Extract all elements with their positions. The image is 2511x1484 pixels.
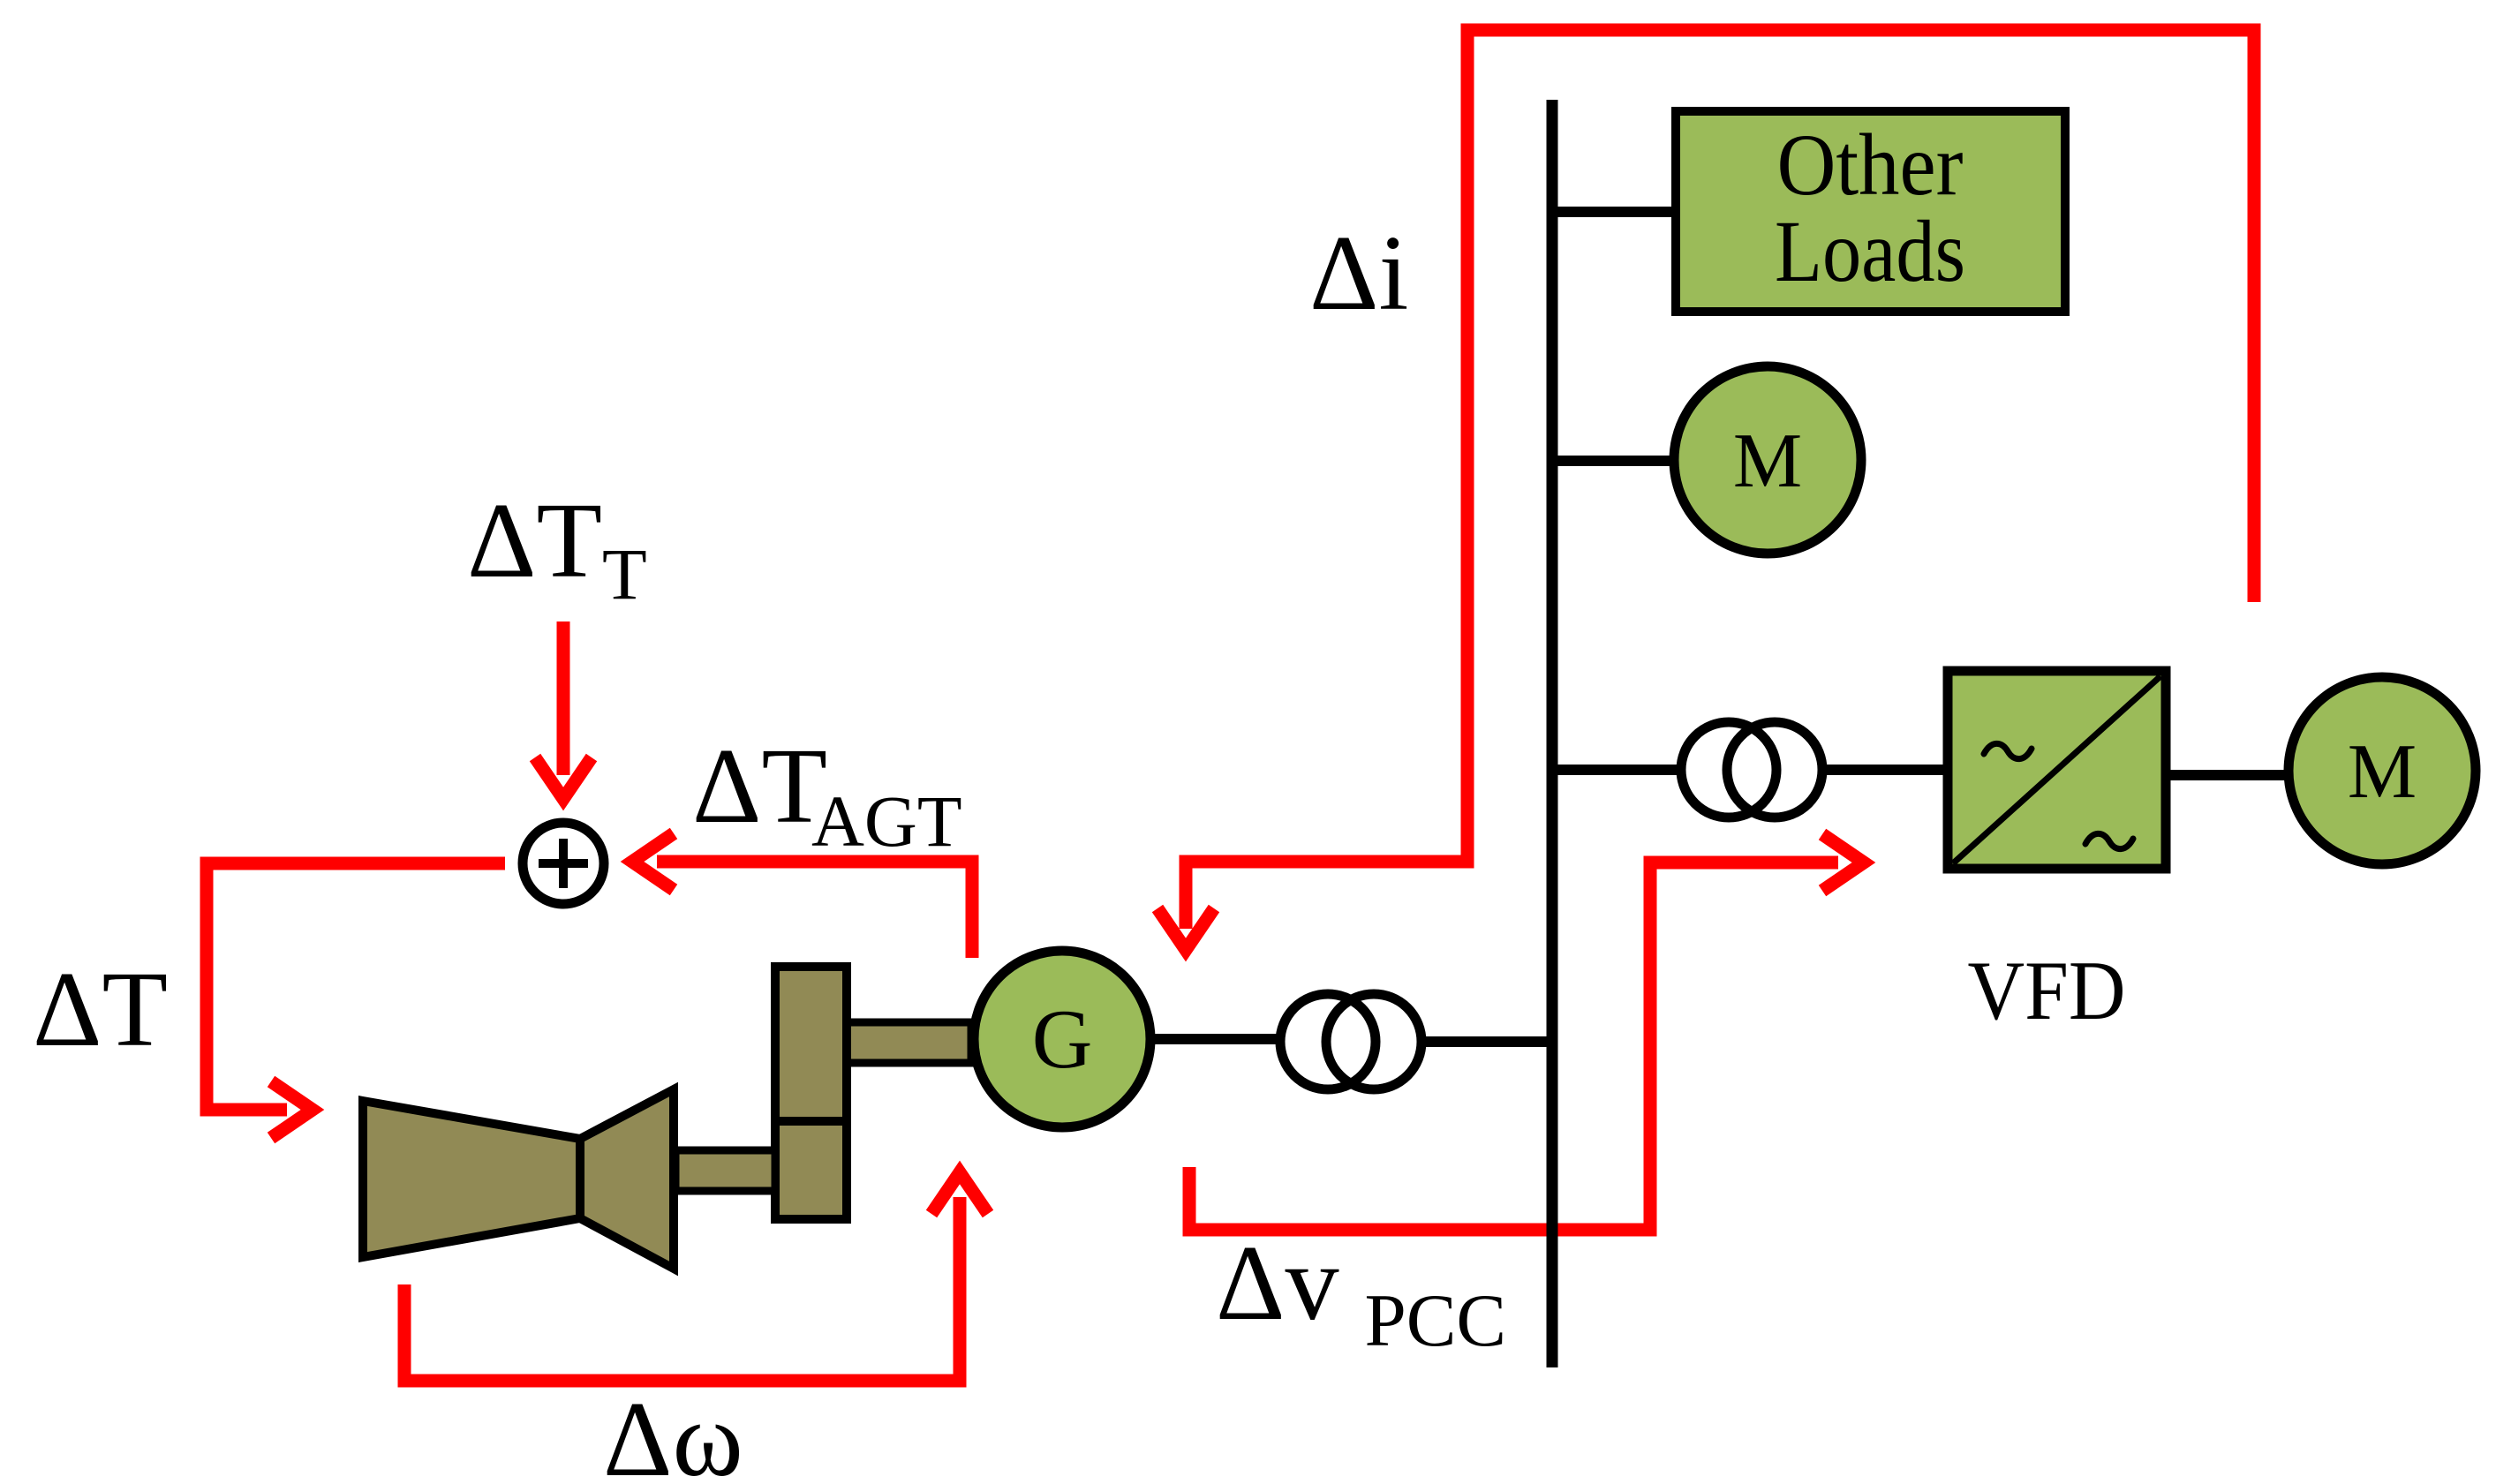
svg-text:Δi: Δi	[1309, 214, 1408, 333]
svg-text:ΔT: ΔT	[33, 950, 168, 1069]
wire: transformer T1 to bus	[1423, 1036, 1552, 1047]
gearbox upper block	[775, 967, 847, 1121]
shaft gearbox to generator	[846, 1022, 971, 1063]
node DT arrowhead (right)	[271, 1081, 313, 1138]
wire: tap bus to Other Loads	[1552, 207, 1673, 217]
svg-text:M: M	[2348, 729, 2417, 815]
wire: tap bus to transformer T2	[1552, 765, 1678, 775]
node DT_T arrowhead	[535, 757, 592, 799]
tilde AC top-left	[1984, 743, 2032, 758]
wire: red DT_T input arrow (down into summing junction)	[557, 621, 570, 775]
node Di arrowhead (down)	[1157, 908, 1214, 950]
generator G	[974, 951, 1150, 1127]
turbine AGT (bowtie right half)	[580, 1089, 674, 1269]
wire: red Dv_PCC feedback	[1189, 863, 1838, 1230]
gearbox lower block	[775, 1121, 847, 1219]
wire: red Domega feedback loop	[404, 1197, 960, 1381]
motor M2	[2289, 677, 2476, 864]
wire: bus PCC (vertical black)	[1547, 100, 1558, 1367]
wire: G to transformer T1	[1153, 1034, 1278, 1044]
wire: VFD to motor M2	[2166, 770, 2291, 780]
svg-text:M: M	[1733, 418, 1802, 504]
motor M1	[1674, 366, 1861, 554]
summing junction	[523, 823, 604, 904]
node Domega arrowhead (up)	[931, 1172, 988, 1214]
turbine AGT (bowtie left half)	[363, 1101, 580, 1257]
shaft turbine to gearbox	[675, 1150, 775, 1191]
transformer T2 (two circles)	[1681, 722, 1822, 817]
svg-text:G: G	[1032, 992, 1093, 1086]
converter VFD box	[1948, 671, 2166, 869]
tilde AC bottom-right	[2085, 833, 2133, 848]
wire: tap bus to motor M1	[1552, 456, 1673, 466]
wire: red DT loop (summing junction to turbine)	[207, 863, 505, 1110]
transformer T1 (two circles)	[1280, 994, 1421, 1089]
wire: red DT_AGT feedback	[657, 862, 972, 958]
node Dv_PCC arrowhead (right)	[1822, 834, 1864, 891]
load box "Other Loads"	[1676, 111, 2065, 312]
svg-text:Loads: Loads	[1775, 202, 1965, 300]
wire: transformer T2 to VFD	[1824, 765, 1948, 775]
diagonal	[1953, 676, 2160, 863]
svg-text:VFD: VFD	[1968, 944, 2126, 1037]
wire: red Di feedback loop (top)	[1186, 30, 2254, 929]
svg-text:Δω: Δω	[603, 1380, 743, 1484]
node DT_AGT arrowhead (left)	[632, 833, 674, 890]
svg-text:Other: Other	[1777, 116, 1964, 214]
